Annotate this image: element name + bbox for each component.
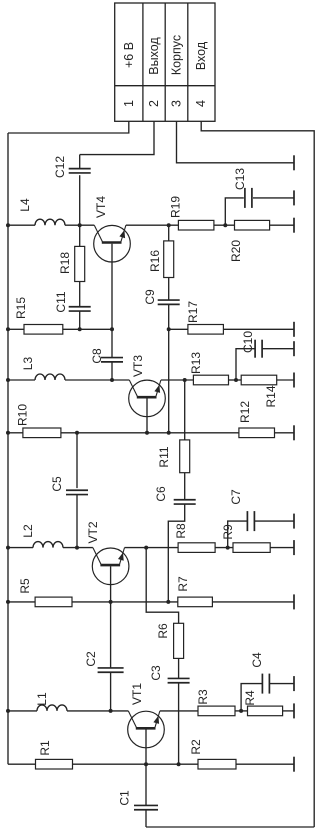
transistor VT4 [94,225,131,262]
wire C12 lower lead [79,175,81,225]
wire R4 to ground [283,710,294,712]
svg-text:VT1: VT1 [130,683,144,705]
wire R17 left lead [169,328,188,330]
node VT3 emitter / R11 [183,378,187,382]
node rail/R15 [6,327,10,331]
wire R8 to R9 [215,547,233,549]
capacitor C11 [69,306,91,308]
svg-text:C10: C10 [241,331,255,353]
node C9/R17 junction [167,327,171,331]
node C5 to VT2 collector line [75,546,79,550]
node C9 chain to VT3 base [167,431,171,435]
resistor R9 [233,543,270,553]
wire C2 lower lead [110,672,112,711]
svg-text:R1: R1 [38,740,52,756]
node C3 chain to VT1 base [177,762,181,766]
transistor VT3 [129,380,166,417]
wire R18 top lead [79,225,81,246]
resistor R16 [164,241,174,278]
ground chassis R17 [293,322,295,337]
wire R13 to R14 [229,379,242,381]
node VT4 emitter / R16 [167,223,171,227]
node VT1 base / C1 [144,762,148,766]
wire R20 to ground [270,224,294,226]
resistor R18 [75,246,85,281]
svg-text:L2: L2 [21,524,35,538]
ground chassis R7 [293,594,295,609]
ground chassis R2 [293,757,295,772]
wire rail to R5 [8,601,35,603]
resistor R6 [174,623,184,658]
resistor R13 [193,375,228,385]
svg-text:R6: R6 [156,623,170,639]
node C8 to VT3 collector line [110,378,114,382]
svg-text:R11: R11 [157,446,171,467]
capacitor C12 [69,168,91,170]
wire C1 lower lead [145,810,147,828]
svg-text:R13: R13 [189,352,203,374]
svg-text:R19: R19 [169,196,183,218]
wire R5 to R7 [72,601,178,603]
svg-text:C4: C4 [250,652,264,668]
svg-text:Вход: Вход [194,41,208,70]
capacitor C4 [261,674,263,694]
node R3/R4/C4 [239,709,243,713]
node C2 to VT1 collector line [109,709,113,713]
wire C1 upper lead [145,764,147,806]
wire C8 upper lead [111,329,113,357]
ground chassis C7 [293,514,295,529]
wire L4 to VT4 collector [65,224,94,226]
inductor L3 [35,374,65,380]
node R13/R14/C10 [234,378,238,382]
wire C3 to VT1 base line [178,682,180,764]
svg-text:VT2: VT2 [86,521,100,543]
ground chassis R20 [293,218,295,233]
resistor R8 [178,543,215,553]
wire R17 to ground [223,328,294,330]
capacitor C5 [66,489,88,491]
wire pin2 to C12 (output) [80,121,154,154]
resistor R7 [178,597,213,607]
ground chassis C4 [293,676,295,691]
svg-text:L4: L4 [18,198,32,212]
svg-text:R14: R14 [264,385,278,407]
svg-text:Корпус: Корпус [170,35,184,75]
svg-text:C13: C13 [233,168,247,190]
resistor R4 [248,706,283,716]
wire VT3 emitter line [161,379,194,381]
wire VT4 emitter to R16 node [126,224,178,226]
wire R2 to ground [236,763,294,765]
node VT4 base / C8 [110,327,114,331]
svg-text:1: 1 [122,100,136,107]
svg-text:4: 4 [194,100,208,107]
svg-text:R4: R4 [243,690,257,706]
svg-text:R15: R15 [14,297,28,319]
wire VT4 base lead [111,244,113,330]
wire pin4 input to right rail [201,121,314,827]
svg-text:2: 2 [147,100,161,107]
capacitor C7 [246,511,248,531]
capacitor C3 [168,677,190,679]
wire R16 top lead [168,225,170,241]
connector XS1 body [115,3,215,121]
node C11/base line [78,327,82,331]
wire R11 top lead [184,380,186,440]
resistor R17 [188,325,224,335]
wire C9 to VT3 base line [168,304,170,432]
wire C12 upper lead [79,155,81,169]
svg-text:C1: C1 [118,790,132,806]
wire VT1 emitter line [160,710,198,712]
svg-text:R8: R8 [174,523,188,539]
svg-text:C5: C5 [50,476,64,492]
ground chassis C13 [293,190,295,205]
wire R6 to C3 [178,658,180,678]
svg-text:C7: C7 [229,489,243,505]
svg-text:+6 В: +6 В [122,42,136,68]
resistor R3 [198,706,235,716]
resistor R12 [239,428,275,438]
wire R10 to VT3 base [61,432,239,434]
ground chassis R9 [293,540,295,555]
wire R19 to R20 [214,224,235,226]
capacitor C6 [174,499,196,501]
ground chassis R12 [293,425,295,440]
svg-text:Выход: Выход [147,37,161,75]
ground chassis pin3 [293,155,295,170]
svg-text:R20: R20 [229,240,243,262]
node C5 top [75,431,79,435]
ground chassis R14 [293,373,295,388]
svg-text:VT3: VT3 [131,355,145,377]
svg-text:C2: C2 [84,651,98,667]
wire VT3 base lead [146,398,148,432]
svg-text:R17: R17 [186,301,200,323]
wire C6 to VT2 base line [168,504,184,602]
wire R12 to ground [275,432,295,434]
wire R14 to ground [277,379,294,381]
svg-text:R18: R18 [58,252,72,274]
wire C4 to ground [270,683,295,685]
wire rail to R15 [8,328,24,330]
wire R16 to C9 [168,278,170,301]
svg-text:R16: R16 [148,250,162,272]
wire R1 to R2 [73,763,199,765]
wire VT2 base lead [110,566,112,602]
wire VT1 base lead [145,730,147,765]
wire R7 to ground [212,601,294,603]
wire R18 to C11 [79,282,81,307]
wire R3 to R4 [235,710,248,712]
wire R11 to C6 [184,473,186,501]
wire VT2 emitter feedback down [146,548,178,624]
node C12/R18 tap [78,223,82,227]
wire C13 to ground [253,197,294,199]
wire R15 to C11 node [63,328,112,330]
node rail/L2 [6,546,10,550]
wire rail to L4 [8,224,35,226]
svg-text:C12: C12 [53,156,67,178]
wire C10 to ground [262,348,294,350]
svg-text:3: 3 [170,100,184,107]
capacitor C1 [134,804,158,806]
node VT2 base / C2 [109,600,113,604]
wire C2 upper lead [110,602,112,668]
wire rail to R10 [8,432,23,434]
wire pin3 to ground [177,121,295,163]
svg-text:VT4: VT4 [94,196,108,218]
svg-text:R7: R7 [176,576,190,592]
wire +6V left rail [7,133,9,764]
ground chassis C10 [293,341,295,356]
svg-text:L1: L1 [35,692,49,706]
wire C13 takeoff [225,198,244,225]
capacitor C10 [254,340,256,358]
resistor R5 [35,597,72,607]
inductor L1 [37,705,67,711]
transistor VT2 [92,548,129,585]
wire rail to R1 [8,763,36,765]
svg-text:R10: R10 [16,404,30,426]
capacitor C8 [101,357,123,359]
svg-text:C3: C3 [149,665,163,681]
capacitor C9 [158,299,180,301]
wire pin1 to +6V rail [8,121,129,133]
wire rail to L1 [8,710,37,712]
wire rail to L2 [8,547,33,549]
capacitor C13 [244,188,246,208]
node R8/R9/C7 [226,546,230,550]
transistor VT1 [128,711,165,748]
svg-text:R3: R3 [196,689,210,705]
wire L3 to VT3 collector [65,379,129,381]
wire L2 to VT2 collector [63,547,93,549]
node rail/R10 [6,431,10,435]
svg-text:R12: R12 [238,401,252,423]
wire C7 takeoff [228,521,248,548]
wire C5 upper lead [76,433,78,488]
resistor R11 [180,440,190,473]
svg-text:C8: C8 [90,348,104,364]
wire L1 to VT1 collector [67,710,128,712]
node R19/R20/C13 [223,223,227,227]
resistor R20 [235,220,270,230]
inductor L2 [33,542,63,548]
ground chassis R4 [293,703,295,718]
node rail/R5 [6,600,10,604]
wire C11 to base line [79,311,81,329]
wire C8 lower lead [111,361,113,380]
resistor R15 [24,325,63,335]
resistor R19 [178,220,214,230]
wire bottom input line [146,826,314,828]
svg-text:C11: C11 [54,291,68,312]
wire C7 to ground [255,520,295,522]
wire C5 lower lead [76,495,78,548]
node +6V to L4 junction [6,223,10,227]
wire C10 takeoff [236,349,255,380]
wire R9 to ground [270,547,294,549]
node VT2 emitter / R6 feedback tap [144,546,148,550]
svg-text:R5: R5 [18,578,32,594]
svg-text:C6: C6 [154,486,168,502]
resistor R2 [198,759,236,769]
resistor R1 [36,759,73,769]
resistor R14 [241,375,277,385]
resistor R10 [23,428,61,438]
svg-text:C9: C9 [143,289,157,305]
node C6 chain to VT2 base [166,600,170,604]
wire C4 takeoff [241,684,262,711]
node rail/L3 [6,378,10,382]
wire VT2 emitter line [125,547,179,549]
svg-text:L3: L3 [21,357,35,371]
inductor L4 [35,219,65,225]
node VT3 base junction [145,431,149,435]
wire rail to L3 [8,379,35,381]
capacitor C2 [98,667,124,669]
svg-text:R2: R2 [189,739,203,755]
node rail/L1 [6,709,10,713]
